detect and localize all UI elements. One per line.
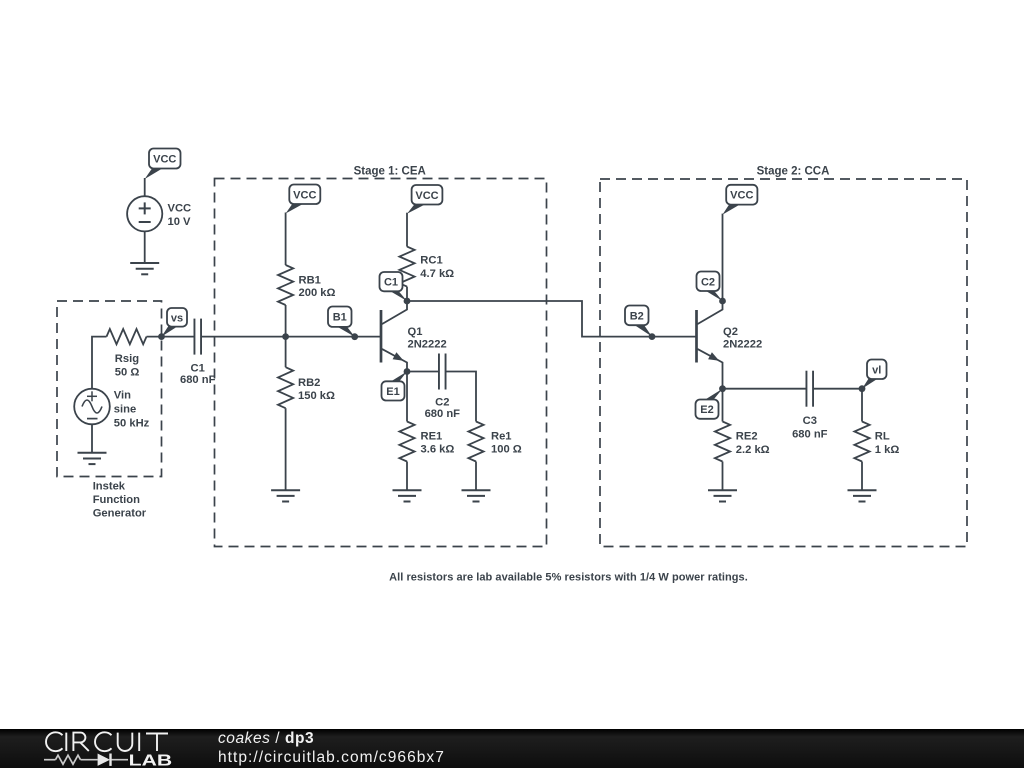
capacitor C2 680 nF xyxy=(425,354,461,421)
svg-text:1 kΩ: 1 kΩ xyxy=(875,444,900,456)
svg-text:2.2 kΩ: 2.2 kΩ xyxy=(736,444,770,456)
svg-text:Rsig: Rsig xyxy=(115,353,139,365)
net flag VCC (Q2) xyxy=(723,185,758,215)
ground xyxy=(708,490,737,501)
footer bar xyxy=(0,729,1024,768)
node C1 (collector) xyxy=(380,272,411,304)
svg-text:4.7 kΩ: 4.7 kΩ xyxy=(420,268,454,280)
svg-text:VCC: VCC xyxy=(293,189,316,201)
wire xyxy=(91,424,93,453)
node B1 xyxy=(328,307,358,341)
svg-text:vs: vs xyxy=(171,312,183,324)
ground xyxy=(271,490,300,501)
enclosure: Instek Function Generator xyxy=(57,301,162,519)
wire xyxy=(144,178,146,196)
node vs xyxy=(158,308,187,340)
wire xyxy=(406,213,408,247)
svg-text:200 kΩ: 200 kΩ xyxy=(299,287,336,299)
CircuitLab logo wordmark CIRCUIT xyxy=(46,732,168,751)
svg-text:Stage 2: CCA: Stage 2: CCA xyxy=(757,165,830,177)
net flag VCC (supply rail) xyxy=(145,149,181,180)
svg-text:coakes / dp3: coakes / dp3 xyxy=(218,730,314,747)
svg-text:Vin: Vin xyxy=(114,390,131,402)
svg-text:RE2: RE2 xyxy=(736,431,758,443)
wire xyxy=(92,337,107,389)
resistor Re1 100 Ω xyxy=(468,422,521,462)
wire xyxy=(446,372,477,422)
wire xyxy=(475,462,477,491)
svg-text:680 nF: 680 nF xyxy=(425,408,461,420)
svg-text:2N2222: 2N2222 xyxy=(408,338,447,350)
ground xyxy=(848,490,877,501)
svg-text:RL: RL xyxy=(875,431,890,443)
svg-text:VCC: VCC xyxy=(153,154,176,166)
svg-text:vl: vl xyxy=(872,364,881,376)
wire xyxy=(722,462,724,491)
capacitor C1 680 nF xyxy=(180,319,216,386)
svg-text:150 kΩ: 150 kΩ xyxy=(298,390,335,402)
svg-text:C1: C1 xyxy=(191,363,205,375)
resistor RB2 150 kΩ xyxy=(278,367,335,408)
svg-text:C2: C2 xyxy=(435,397,449,409)
node E2 (emitter) xyxy=(696,385,726,418)
svg-text:RB2: RB2 xyxy=(298,377,320,389)
enclosure: Stage 1 CEA xyxy=(215,165,547,546)
CircuitLab logo symbol + LAB xyxy=(44,752,172,768)
wire xyxy=(407,301,697,337)
svg-text:VCC: VCC xyxy=(415,190,438,202)
svg-text:C3: C3 xyxy=(803,415,817,427)
svg-text:B1: B1 xyxy=(333,312,347,324)
resistor RB1 200 kΩ xyxy=(278,265,335,305)
svg-text:Q2: Q2 xyxy=(723,326,738,338)
voltage source Vin sine 50 kHz xyxy=(74,389,149,430)
resistor RC1 4.7 kΩ xyxy=(399,247,454,287)
wire xyxy=(722,389,724,422)
svg-text:All resistors are lab availabl: All resistors are lab available 5% resis… xyxy=(389,572,748,584)
node E1 (emitter) xyxy=(382,368,411,400)
svg-text:50 kHz: 50 kHz xyxy=(114,418,150,430)
wire xyxy=(813,388,862,390)
svg-text:B2: B2 xyxy=(630,310,644,322)
enclosure: Stage 2 CCA xyxy=(600,165,967,546)
wire xyxy=(147,336,195,338)
transistor Q1 2N2222 xyxy=(381,301,447,372)
resistor RE2 2.2 kΩ xyxy=(715,422,770,462)
svg-text:100 Ω: 100 Ω xyxy=(491,444,522,456)
node vl xyxy=(859,360,887,393)
wire xyxy=(861,462,863,491)
voltage source V1 VCC 10 V xyxy=(127,196,191,231)
ground xyxy=(78,453,107,464)
svg-text:E1: E1 xyxy=(386,386,399,398)
ground xyxy=(393,490,422,501)
net flag VCC (RC1) xyxy=(407,185,442,214)
wire xyxy=(406,462,408,491)
svg-text:Function: Function xyxy=(93,494,140,506)
node C2 (collector) xyxy=(697,272,726,305)
wire xyxy=(201,336,381,338)
wire xyxy=(144,231,146,263)
svg-text:sine: sine xyxy=(114,404,136,416)
svg-text:Q1: Q1 xyxy=(408,326,423,338)
node B2 xyxy=(625,306,655,341)
footer url xyxy=(218,749,445,766)
svg-text:50 Ω: 50 Ω xyxy=(115,367,140,379)
wire xyxy=(285,408,287,490)
wire xyxy=(406,287,408,301)
svg-text:Generator: Generator xyxy=(93,507,147,519)
ground xyxy=(130,263,159,274)
resistor Rsig 50 Ω xyxy=(107,329,147,379)
svg-text:680 nF: 680 nF xyxy=(180,374,216,386)
wire xyxy=(722,214,724,301)
svg-text:VCC: VCC xyxy=(730,190,753,202)
net flag VCC (RB1) xyxy=(286,185,321,214)
svg-text:E2: E2 xyxy=(700,404,713,416)
junction xyxy=(282,333,289,340)
capacitor C3 680 nF xyxy=(792,371,828,441)
svg-text:Instek: Instek xyxy=(93,480,126,492)
caption note xyxy=(389,572,748,584)
wire xyxy=(407,371,439,373)
wire xyxy=(406,372,408,422)
wire xyxy=(285,305,287,367)
footer credit coakes / dp3 xyxy=(218,730,314,747)
svg-text:3.6 kΩ: 3.6 kΩ xyxy=(421,444,455,456)
svg-text:2N2222: 2N2222 xyxy=(723,338,762,350)
svg-text:C1: C1 xyxy=(384,277,398,289)
svg-text:RC1: RC1 xyxy=(420,255,442,267)
wire xyxy=(861,389,863,422)
svg-text:680 nF: 680 nF xyxy=(792,429,828,441)
transistor Q2 2N2222 xyxy=(697,301,763,389)
wire xyxy=(723,388,807,390)
resistor RE1 3.6 kΩ xyxy=(399,422,454,462)
resistor RL 1 kΩ xyxy=(854,422,899,462)
svg-text:Stage 1: CEA: Stage 1: CEA xyxy=(354,165,426,177)
svg-text:VCC: VCC xyxy=(168,203,192,215)
svg-text:http://circuitlab.com/c966bx7: http://circuitlab.com/c966bx7 xyxy=(218,749,445,766)
svg-text:LAB: LAB xyxy=(129,752,173,768)
svg-text:10 V: 10 V xyxy=(168,216,192,228)
wire xyxy=(285,213,287,266)
svg-text:Re1: Re1 xyxy=(491,430,512,442)
svg-text:RB1: RB1 xyxy=(299,274,321,286)
ground xyxy=(462,490,491,501)
svg-text:C2: C2 xyxy=(701,276,715,288)
svg-text:RE1: RE1 xyxy=(421,430,443,442)
